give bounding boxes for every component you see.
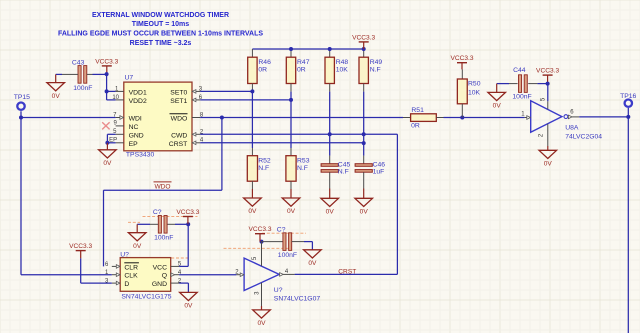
svg-text:74LVC2G04: 74LVC2G04	[565, 134, 602, 141]
svg-text:R48: R48	[336, 59, 349, 66]
svg-text:VCC3.3: VCC3.3	[95, 58, 118, 65]
svg-text:TPS3430: TPS3430	[126, 152, 155, 159]
svg-text:0V: 0V	[248, 208, 257, 215]
svg-text:N.F: N.F	[370, 66, 381, 73]
svg-text:1uF: 1uF	[373, 169, 385, 176]
svg-text:R51: R51	[411, 107, 424, 114]
svg-text:SET1: SET1	[170, 98, 187, 105]
svg-text:CRST: CRST	[169, 141, 188, 148]
svg-text:CWD: CWD	[171, 132, 187, 139]
svg-text:SET0: SET0	[170, 89, 187, 96]
svg-text:VCC3.3: VCC3.3	[352, 34, 375, 41]
svg-text:0V: 0V	[52, 93, 61, 100]
svg-text:C45: C45	[338, 161, 351, 168]
svg-text:100nF: 100nF	[154, 235, 173, 242]
svg-text:SN74LVC1G07: SN74LVC1G07	[274, 295, 321, 302]
svg-text:SN74LVC1G175: SN74LVC1G175	[121, 294, 171, 301]
svg-text:RESET TIME ~3.2s: RESET TIME ~3.2s	[130, 40, 192, 47]
svg-text:R47: R47	[297, 59, 310, 66]
svg-text:R52: R52	[258, 157, 271, 164]
svg-text:FALLING EGDE MUST OCCUR BETWEE: FALLING EGDE MUST OCCUR BETWEEN 1-10ms I…	[58, 31, 263, 38]
svg-text:0V: 0V	[493, 103, 502, 110]
svg-text:R46: R46	[258, 59, 271, 66]
svg-text:100nF: 100nF	[512, 94, 531, 101]
svg-text:N.F: N.F	[338, 169, 349, 176]
svg-text:0V: 0V	[360, 209, 369, 216]
svg-text:0R: 0R	[297, 66, 306, 73]
svg-text:0R: 0R	[258, 66, 267, 73]
svg-text:0V: 0V	[103, 160, 112, 167]
svg-text:U?: U?	[274, 287, 283, 294]
svg-text:VDD1: VDD1	[129, 89, 147, 96]
svg-text:R49: R49	[370, 59, 383, 66]
svg-text:CRST: CRST	[338, 269, 356, 276]
svg-text:VCC3.3: VCC3.3	[450, 55, 473, 62]
svg-text:0V: 0V	[544, 161, 553, 168]
svg-text:TIMEOUT = 10ms: TIMEOUT = 10ms	[132, 21, 189, 28]
svg-text:VDD2: VDD2	[129, 98, 147, 105]
svg-text:D: D	[124, 281, 129, 288]
svg-text:VCC3.3: VCC3.3	[69, 243, 92, 250]
svg-text:N.F: N.F	[258, 165, 269, 172]
svg-text:0V: 0V	[326, 209, 335, 216]
svg-text:GND: GND	[129, 132, 144, 139]
svg-text:0R: 0R	[411, 123, 420, 130]
svg-text:C46: C46	[373, 161, 386, 168]
svg-text:R50: R50	[468, 81, 481, 88]
svg-text:VCC3.3: VCC3.3	[176, 209, 199, 216]
svg-text:100nF: 100nF	[278, 252, 297, 259]
svg-text:CLK: CLK	[124, 273, 138, 280]
svg-text:C?: C?	[153, 209, 162, 216]
svg-text:VCC3.3: VCC3.3	[536, 68, 559, 75]
svg-text:VCC3.3: VCC3.3	[248, 226, 271, 233]
svg-text:0V: 0V	[308, 260, 317, 267]
svg-text:WDO: WDO	[154, 183, 170, 190]
svg-text:U7: U7	[125, 74, 134, 81]
svg-text:10K: 10K	[336, 66, 349, 73]
svg-text:R53: R53	[297, 157, 310, 164]
svg-text:VCC: VCC	[153, 264, 167, 271]
svg-text:EP: EP	[129, 141, 139, 148]
svg-text:C44: C44	[513, 67, 526, 74]
svg-text:TP15: TP15	[14, 94, 30, 101]
svg-text:0V: 0V	[184, 303, 193, 310]
svg-text:10K: 10K	[468, 90, 481, 97]
svg-text:100nF: 100nF	[73, 85, 92, 92]
svg-text:WDO: WDO	[171, 116, 188, 123]
svg-text:U?: U?	[120, 251, 129, 258]
svg-text:U8A: U8A	[565, 125, 579, 132]
svg-text:0V: 0V	[257, 320, 266, 327]
svg-text:CLR: CLR	[124, 264, 138, 271]
svg-text:WDI: WDI	[129, 116, 142, 123]
svg-text:0V: 0V	[133, 243, 142, 250]
svg-text:GND: GND	[152, 281, 167, 288]
svg-text:Q: Q	[162, 273, 167, 280]
svg-text:C?: C?	[277, 226, 286, 233]
svg-text:0V: 0V	[287, 208, 296, 215]
svg-text:N.F: N.F	[297, 165, 308, 172]
svg-text:EXTERNAL WINDOW WATCHDOG TIMER: EXTERNAL WINDOW WATCHDOG TIMER	[92, 12, 229, 19]
svg-text:C43: C43	[72, 60, 85, 67]
svg-text:NC: NC	[129, 124, 139, 131]
